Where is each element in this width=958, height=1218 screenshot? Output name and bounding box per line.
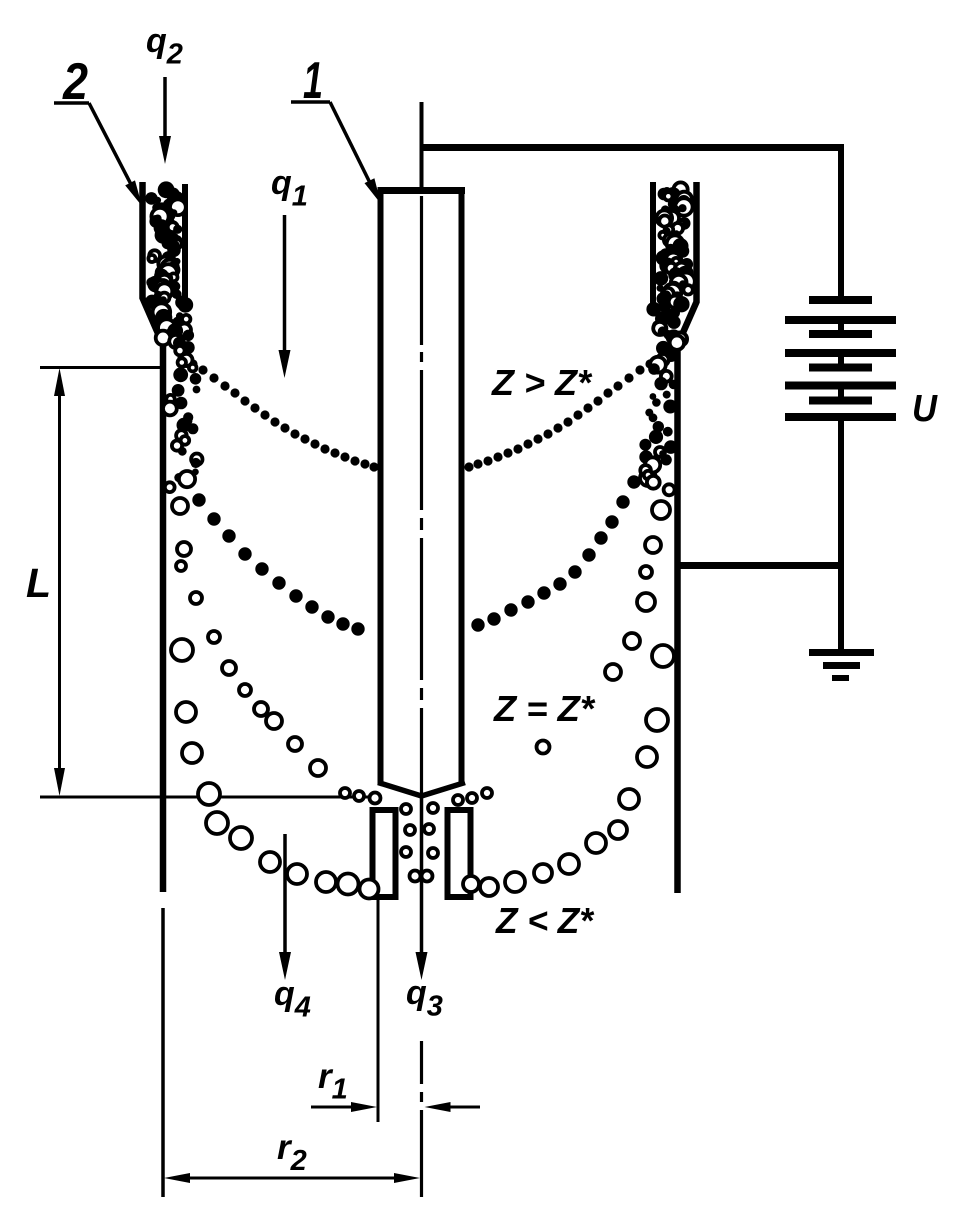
dimension L extension line top: [40, 366, 163, 369]
leader line for item 1: [291, 102, 381, 204]
q3 flow line on axis: [420, 797, 424, 956]
right funnel inner wall: [650, 182, 656, 308]
wire battery to ground: [838, 417, 844, 652]
particles in central outlet channel: [401, 803, 438, 882]
trajectory Z&lt;Z* left below outlet: [206, 812, 379, 899]
right sampling slit tube: [448, 810, 471, 897]
svg-text:L: L: [26, 560, 51, 606]
central electrode left wall: [378, 187, 384, 784]
svg-text:Z > Z*: Z > Z*: [491, 362, 593, 403]
aerosol particles left funnel bend: [153, 296, 195, 350]
flow arrow q1: [279, 215, 291, 378]
aerosol particles left funnel throat: [163, 341, 203, 492]
left sampling slit tube: [373, 810, 396, 897]
arrowhead q3: [416, 952, 428, 980]
svg-text:Z < Z*: Z < Z*: [495, 900, 595, 941]
dimension line L with arrows: [54, 368, 65, 796]
dimension L extension line bottom: [40, 796, 380, 799]
aerosol particles in left inlet funnel: [145, 181, 186, 309]
trajectory Z&lt;Z* right along wall: [605, 447, 674, 767]
flow arrow q2: [159, 77, 171, 164]
trajectory Z&lt;Z* right toward slit: [463, 789, 639, 896]
single particle left of slit: [537, 741, 550, 754]
trajectory Z=Z* left (medium particles): [177, 473, 364, 635]
left funnel inner wall: [182, 184, 188, 306]
central electrode right wall: [459, 187, 465, 784]
particles entering slit from right: [453, 788, 492, 805]
axis dash-dot center line inside electrode: [420, 196, 423, 795]
aerosol particles right funnel throat: [639, 341, 678, 495]
battery U (multi-cell): [785, 300, 896, 417]
ground symbol: [809, 653, 874, 679]
wire outer electrode to ground wire: [678, 562, 842, 569]
flow arrow q4: [279, 834, 291, 980]
aerosol particles in right inlet funnel: [654, 182, 695, 308]
trajectory Z=Z* right (medium particles): [471, 450, 652, 631]
outer electrode left wall with aerosol inlet funnel (item 2): [143, 182, 164, 892]
central electrode conical tip: [378, 783, 465, 797]
svg-text:U: U: [912, 388, 938, 430]
extension line electrode wall: [377, 900, 380, 1122]
aerosol particles right funnel bend: [646, 296, 689, 350]
extension line outer wall: [161, 908, 165, 1197]
trajectory Z&lt;Z* left diagonal: [208, 631, 326, 776]
wire down to battery: [838, 144, 844, 300]
axis dash-dot center line below: [420, 1041, 423, 1197]
trajectory Z&gt;Z* left (small particles): [177, 353, 378, 471]
particles entering slit from left: [340, 788, 381, 804]
svg-text:Z = Z*: Z = Z*: [493, 688, 596, 729]
trajectory Z&gt;Z* right (small particles): [464, 353, 665, 471]
svg-text:1: 1: [303, 52, 323, 110]
trajectory Z&lt;Z* left along wall: [171, 498, 220, 805]
axis center line upper (wire to electrode): [420, 102, 424, 190]
outer electrode right wall with aerosol inlet funnel: [678, 182, 697, 893]
central electrode top edge: [378, 187, 465, 194]
dimension r2 with arrows: [164, 1173, 420, 1183]
svg-text:2: 2: [62, 53, 88, 111]
dimension r1 arrows: [311, 1102, 480, 1112]
wire electrode to battery (horizontal): [422, 144, 842, 151]
leader line for item 2: [54, 103, 142, 206]
